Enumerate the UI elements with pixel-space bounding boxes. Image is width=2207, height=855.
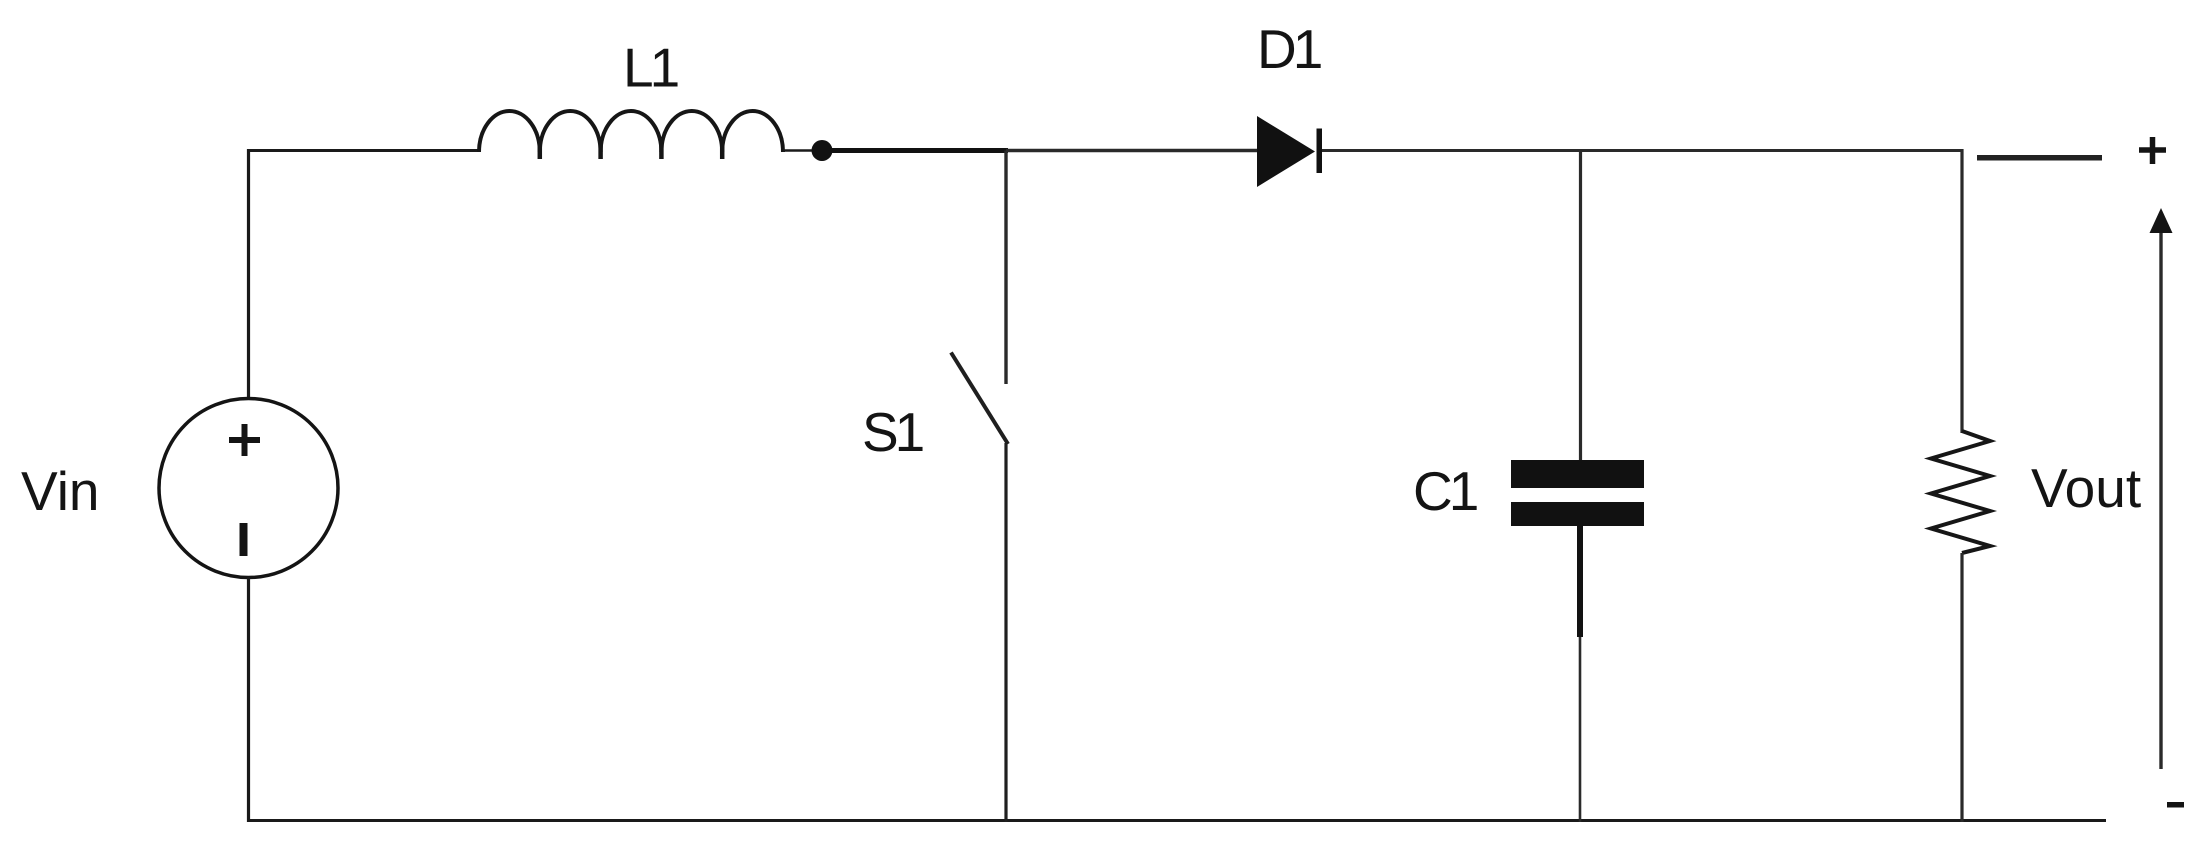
bottom wire	[247, 819, 2106, 822]
switch rail: blade to bottom wire	[1004, 443, 1007, 822]
right rail: top corner down to resistor	[1960, 149, 1963, 433]
resistor (load) zigzag	[1931, 431, 1990, 553]
capacitor rail: top wire down to top plate	[1579, 151, 1582, 463]
svg-text:L1: L1	[623, 37, 678, 99]
left rail: Vin source down to bottom wire	[247, 577, 250, 822]
Vin minus bar	[240, 523, 248, 556]
svg-text:Vout: Vout	[2031, 457, 2141, 519]
inductor L1	[479, 111, 783, 159]
plus sign (output)	[2139, 137, 2166, 164]
svg-text:C1: C1	[1413, 460, 1477, 522]
wire: top-left horizontal from left rail to inductor	[247, 149, 480, 152]
switch rail: top junction down to blade opening	[1004, 151, 1007, 385]
switch S1 blade	[951, 353, 1008, 445]
Vout arrow head	[2150, 208, 2173, 233]
wire: node dot to switch junction (thick)	[830, 148, 1008, 153]
capacitor rail: bottom plate stub (thick)	[1577, 526, 1583, 637]
Vin plus sign	[229, 424, 260, 456]
diode D1	[1257, 116, 1322, 187]
left rail: top corner down to Vin source	[247, 149, 250, 399]
minus sign (output, bottom-right)	[2167, 802, 2184, 808]
wire: inductor to node dot	[783, 149, 822, 152]
svg-text:S1: S1	[862, 401, 923, 463]
capacitor rail: stub to bottom wire	[1579, 637, 1582, 822]
right rail: resistor to bottom wire	[1960, 553, 1963, 822]
voltage source Vin (circle)	[159, 399, 338, 578]
svg-text:D1: D1	[1257, 18, 1321, 80]
wire: top middle, switch junction to diode anode	[1006, 149, 1258, 153]
wire: diode cathode to top-right corner	[1322, 149, 1963, 152]
Vout arrow line	[2159, 232, 2162, 769]
node A junction dot	[812, 140, 833, 161]
capacitor C1 plates	[1511, 460, 1644, 488]
svg-text:Vin: Vin	[21, 460, 100, 522]
output plus terminal bar	[1977, 155, 2102, 161]
